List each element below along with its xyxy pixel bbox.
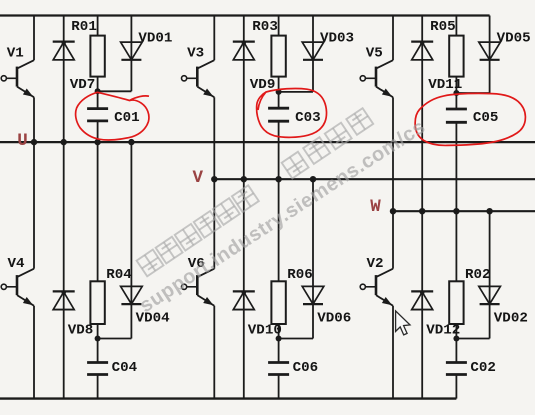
svg-text:VD05: VD05 <box>497 31 531 47</box>
watermark: forum CJK text (glyph mimics) <box>137 108 374 276</box>
resistor R05 <box>449 16 463 94</box>
diode VD12 (freewheel, cathode up) <box>411 211 433 398</box>
annotation: red ellipse around C01 <box>76 92 149 140</box>
wire: W phase bus <box>393 210 535 212</box>
wire: V phase bus <box>214 178 535 180</box>
transistor V2 <box>360 211 393 398</box>
transistor V1 <box>1 16 34 143</box>
svg-text:V2: V2 <box>367 256 384 272</box>
diode VD02 (snubber, cathode down) <box>479 211 501 338</box>
svg-text:R03: R03 <box>252 19 278 35</box>
svg-text:VD11: VD11 <box>428 77 462 93</box>
capacitor C01 <box>87 91 108 142</box>
transistor V5 <box>360 16 393 212</box>
svg-text:VD02: VD02 <box>494 311 528 327</box>
wire: node R03/VD03/C03 junction <box>276 89 313 95</box>
svg-text:VD01: VD01 <box>138 31 172 47</box>
svg-text:C02: C02 <box>470 360 496 376</box>
diode VD06 (snubber, cathode down) <box>302 179 324 338</box>
wire: node R05/VD05/C05 junction <box>453 90 489 96</box>
svg-text:C06: C06 <box>293 360 319 376</box>
transistor V4 <box>1 142 34 399</box>
svg-text:R01: R01 <box>71 19 97 35</box>
wire: node R04/VD04/C04 junction <box>95 336 132 342</box>
mouse cursor <box>396 311 410 335</box>
diode VD10 (freewheel, cathode up) <box>233 179 255 398</box>
diode VD11 (freewheel, cathode up) <box>411 16 433 212</box>
svg-text:V4: V4 <box>8 256 26 272</box>
svg-text:VD12: VD12 <box>426 322 460 338</box>
annotation: red ellipse around C03 <box>257 88 327 137</box>
node: V bus junctions <box>211 176 316 182</box>
resistor R01 <box>90 16 104 92</box>
wire: node R01/VD01/C01 junction <box>95 88 132 94</box>
svg-text:V3: V3 <box>187 46 204 62</box>
svg-text:V: V <box>193 168 204 188</box>
diode VD9 (freewheel, cathode up) <box>233 16 255 180</box>
resistor R02 <box>449 211 463 338</box>
resistor R06 <box>271 179 285 338</box>
diode VD7 (freewheel, cathode up) <box>53 16 75 143</box>
svg-text:R05: R05 <box>430 19 456 35</box>
svg-text:U: U <box>17 131 28 151</box>
capacitor C06 <box>268 339 289 399</box>
capacitor C04 <box>87 339 108 399</box>
svg-text:R04: R04 <box>106 267 132 283</box>
svg-text:W: W <box>370 197 381 217</box>
diode VD8 (freewheel, cathode up) <box>53 142 75 399</box>
svg-text:V5: V5 <box>366 46 383 62</box>
svg-text:VD8: VD8 <box>68 322 94 338</box>
svg-text:R06: R06 <box>287 267 313 283</box>
resistor R04 <box>90 142 104 338</box>
capacitor C05 <box>446 93 467 211</box>
transistor V6 <box>182 179 215 398</box>
svg-text:VD03: VD03 <box>320 31 354 47</box>
diode VD01 (snubber, cathode down) <box>121 16 143 92</box>
capacitor C02 <box>446 339 467 399</box>
capacitor C03 <box>268 92 289 179</box>
annotation: red ellipse around C05 <box>415 93 525 145</box>
svg-text:C04: C04 <box>112 360 138 376</box>
svg-text:C03: C03 <box>295 110 321 126</box>
svg-text:V1: V1 <box>7 46 24 62</box>
wire: node R06/VD06/C06 junction <box>276 336 313 342</box>
svg-text:VD7: VD7 <box>70 77 96 93</box>
diode VD04 (snubber, cathode down) <box>121 142 143 338</box>
wire: node R02/VD02/C02 junction <box>453 336 489 342</box>
svg-text:VD10: VD10 <box>248 322 282 338</box>
svg-text:C05: C05 <box>473 110 499 126</box>
wire: DC- bottom bus <box>0 397 456 399</box>
diode VD05 (snubber, cathode down) <box>479 16 501 94</box>
wire: U phase bus <box>0 141 535 143</box>
svg-text:VD06: VD06 <box>317 311 351 327</box>
diode VD03 (snubber, cathode down) <box>302 16 324 92</box>
svg-text:R02: R02 <box>465 267 491 283</box>
svg-text:C01: C01 <box>114 110 140 126</box>
wire: DC+ top bus <box>0 14 490 16</box>
node: W bus junctions <box>390 208 493 214</box>
resistor R03 <box>271 16 285 92</box>
transistor V3 <box>182 16 215 180</box>
node: U bus junctions <box>31 139 135 145</box>
